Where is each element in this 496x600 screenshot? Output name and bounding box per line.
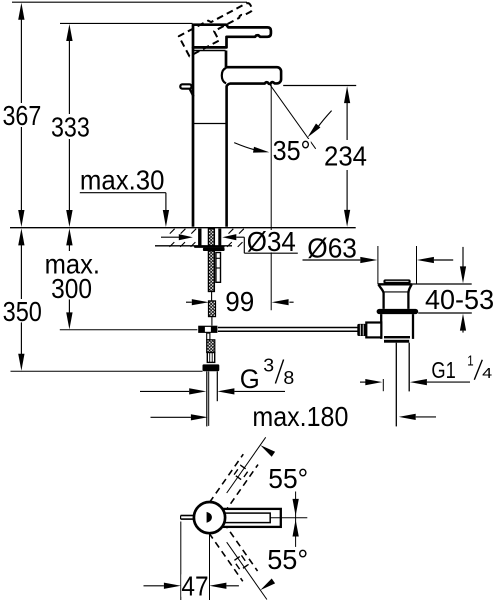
drain rubber seal	[377, 309, 419, 314]
svg-text:350: 350	[3, 296, 42, 327]
label max.180	[251, 401, 349, 432]
G1 1/4 arrows	[360, 379, 470, 391]
counter line at drain flange	[412, 283, 472, 285]
hose line segment 1	[211, 292, 213, 301]
dimension 367 line with arrows	[18, 3, 24, 227]
svg-text:Ø34: Ø34	[247, 226, 296, 257]
drain coupling band	[384, 336, 410, 343]
label max. (of max.300)	[44, 249, 101, 280]
svg-text:Ø63: Ø63	[307, 232, 357, 263]
pop-up pull rod knob	[180, 84, 193, 96]
label 99	[224, 286, 255, 317]
knurled coupling knob	[357, 324, 366, 336]
dimension 234 line with arrows	[344, 86, 350, 227]
threaded shank upper section	[208, 251, 214, 292]
washer under counter	[194, 246, 225, 251]
plan upper 55 centerline	[227, 437, 266, 493]
body joint line	[194, 123, 226, 125]
counter hatching ticks	[170, 229, 253, 247]
water stream vertical reference line	[270, 85, 272, 311]
plan spout stub left	[181, 516, 195, 520]
35 degree stream line	[270, 85, 316, 149]
label max.30 with leader and arrow	[79, 165, 169, 228]
counter top line	[10, 227, 356, 229]
threaded shank in counter hole	[208, 229, 214, 246]
svg-text:max.180: max.180	[252, 401, 348, 432]
label 55deg upper	[267, 463, 309, 494]
supply pipe to drain valve	[218, 328, 358, 332]
dimension 99 arrows	[186, 299, 294, 305]
G3/8 arrows	[140, 388, 285, 394]
svg-text:300: 300	[51, 273, 92, 304]
svg-text:G1: G1	[431, 357, 455, 383]
label 350	[2, 296, 43, 327]
hose end connector	[207, 353, 214, 363]
plan lower 55 arc arrowhead	[260, 579, 275, 591]
label G1 1/4	[430, 353, 492, 383]
faucet body left edge	[192, 47, 195, 226]
flexible hose lower crosshatch section	[207, 340, 215, 353]
svg-text:8: 8	[283, 367, 294, 388]
extension line top of lever (333 ref)	[60, 22, 193, 24]
connection tube lines	[207, 371, 218, 426]
drain plug cap	[383, 279, 410, 283]
35 degree arc arrow right	[308, 111, 332, 138]
svg-text:max.30: max.30	[80, 165, 165, 196]
reference line 350 level	[11, 370, 203, 372]
faucet lever handle and cartridge head (solid)	[193, 25, 271, 48]
47 extension line center axis	[209, 533, 211, 600]
plan faucet body circle	[194, 502, 225, 533]
plan upper 55 arc arrowhead	[260, 445, 275, 457]
svg-text:333: 333	[51, 111, 90, 142]
diameter 34 arrows and leader	[161, 234, 298, 253]
spout joint bulge	[222, 68, 226, 84]
label 300	[50, 273, 93, 304]
tee fitting at supply pipe	[198, 326, 217, 333]
body top seam	[194, 50, 226, 52]
drain flange and neck	[378, 284, 412, 309]
svg-text:47: 47	[181, 570, 208, 600]
svg-text:3: 3	[263, 354, 274, 375]
dimension max180 arrows	[151, 414, 437, 421]
counter bottom line	[155, 245, 232, 247]
spout outline	[226, 67, 281, 227]
dimension max300 arrows	[66, 228, 72, 329]
label G3/8	[239, 354, 295, 393]
drain tailpipe	[396, 343, 409, 427]
diameter 63 arrows	[303, 257, 454, 263]
hose stub below fitting	[207, 333, 210, 340]
dashed raised lever position	[179, 0, 258, 56]
pull rod guide bracket	[216, 253, 221, 283]
label diameter 63	[306, 232, 358, 263]
plan lever bar	[221, 509, 281, 527]
label 55deg lower	[266, 544, 309, 575]
label 35deg	[272, 135, 310, 166]
svg-text:55°: 55°	[267, 544, 308, 575]
35 degree arc arrow left	[234, 143, 269, 153]
47 extension line left	[180, 522, 182, 600]
svg-text:234: 234	[324, 141, 367, 172]
dimension 350 arrows	[18, 228, 24, 370]
label 47	[181, 570, 208, 600]
plan lever centerline	[270, 517, 307, 519]
dimension 47 arrows	[144, 583, 239, 589]
label 367	[2, 100, 43, 131]
plan spout outlet blob	[207, 512, 212, 523]
extension line from spout outlet	[283, 85, 356, 87]
shank outer walls in counter hole	[198, 229, 221, 246]
drain body	[381, 314, 413, 339]
extension line top of raised lever (367 ref)	[12, 1, 247, 3]
plan lower 55 centerline	[227, 542, 267, 599]
svg-text:40-53: 40-53	[425, 284, 494, 315]
reference line max300 level	[60, 329, 198, 331]
svg-text:G: G	[240, 364, 260, 394]
diameter 63 extension lines	[378, 246, 417, 284]
dimension 40-53 arrows	[460, 247, 466, 333]
plan dashed lever rotated down 55	[209, 523, 257, 581]
svg-text:4: 4	[482, 365, 492, 382]
label diameter 34	[246, 226, 297, 257]
dimension 333 line with arrows	[66, 24, 72, 227]
flexible hose crosshatch section	[209, 301, 216, 317]
svg-text:99: 99	[225, 286, 254, 317]
drain side port	[366, 323, 381, 338]
counter line under drain seal	[418, 312, 472, 314]
faucet body right edge upper	[225, 51, 228, 68]
label 40-53	[424, 284, 495, 315]
connection nut G3/8	[203, 364, 220, 371]
plan 55 dimension vertical line with arrows	[293, 492, 299, 547]
svg-text:55°: 55°	[268, 463, 308, 494]
plan dashed lever rotated up 55	[210, 454, 258, 512]
hose line segment 2	[211, 317, 213, 326]
svg-text:1: 1	[467, 353, 473, 370]
svg-text:35°: 35°	[273, 135, 311, 166]
label 333	[50, 111, 91, 142]
svg-text:367: 367	[3, 100, 42, 131]
label 234	[323, 141, 368, 172]
